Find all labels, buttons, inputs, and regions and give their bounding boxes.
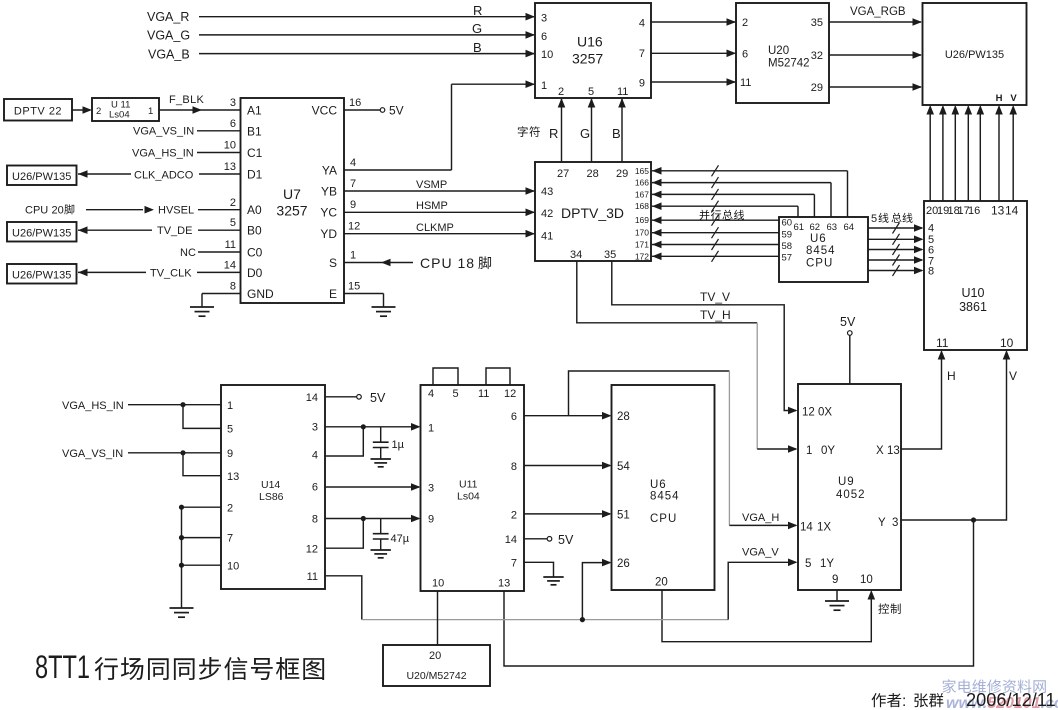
svg-text:5V: 5V [558,533,574,547]
svg-text:GND: GND [247,287,274,301]
svg-text:VSMP: VSMP [416,179,447,191]
svg-text:4: 4 [639,18,645,30]
net TV_H (DPTV 34 to U9 0Y) [577,261,798,453]
svg-text:HVSEL: HVSEL [158,205,194,217]
svg-text:M52742: M52742 [768,58,810,70]
svg-text:TV_V: TV_V [700,290,730,304]
svg-text:9: 9 [350,199,356,211]
wire U14 pin6 to U11 pin3 [325,483,421,491]
svg-text:11: 11 [617,86,628,98]
wire U10 pin 14 to U26 V [1009,105,1017,201]
svg-text:11: 11 [478,388,489,400]
wire U14 pins 2/7/10 to ground [182,507,222,608]
wire 5-wire bus to U10 pin 7 [868,255,924,266]
svg-text:28: 28 [617,411,630,423]
svg-text:1: 1 [428,423,434,435]
svg-text:LS86: LS86 [259,491,284,503]
svg-text:TV_H: TV_H [700,308,731,322]
wire branch to U14 pin12 [325,519,363,549]
svg-text:6: 6 [511,411,517,423]
wire to U14 pin5 [183,405,221,429]
svg-text:3257: 3257 [572,51,603,67]
svg-text:3: 3 [312,422,318,434]
net VGA_VS_IN to U14 pin9 [62,448,221,460]
svg-text:CLKMP: CLKMP [416,222,454,234]
svg-text:H: H [996,93,1003,104]
IC U14 LS86 [221,385,325,589]
svg-text:47µ: 47µ [391,533,410,545]
wire parallel bus bit to DPTV_3D pin 171 [652,239,779,250]
svg-text:YD: YD [320,227,337,241]
svg-text:16: 16 [968,205,980,217]
net CLK_ADCO [78,170,240,182]
wire branch to U14 pin4 [325,427,363,456]
svg-text:YC: YC [320,206,337,220]
svg-text:14: 14 [800,522,813,534]
U11 left pin numbers [428,423,434,526]
net VGA_H (U11 pin6 to U6 pin28 and U9 1X) [524,371,798,529]
wire parallel bus bit to DPTV_3D pin 170 [652,227,779,238]
svg-text:20: 20 [52,205,64,217]
svg-text:11: 11 [225,239,236,251]
svg-text:VCC: VCC [312,104,338,118]
svg-text:13: 13 [498,578,510,590]
svg-text:165: 165 [635,166,649,176]
svg-text:1: 1 [350,250,356,262]
svg-text:VGA_H: VGA_H [742,512,779,524]
svg-text:13: 13 [227,471,239,483]
svg-text:S: S [329,256,337,270]
svg-text:6: 6 [230,118,236,130]
svg-text:R: R [549,126,558,141]
label 字符 (character) [518,126,540,137]
svg-text:B: B [473,40,482,55]
watermark site name [942,679,1045,693]
svg-text:2: 2 [96,106,101,117]
svg-text:168: 168 [635,201,649,211]
svg-text:1: 1 [541,80,547,92]
U14 left pin numbers [227,400,239,573]
svg-text:4052: 4052 [836,489,866,501]
wire parallel bus bit to DPTV_3D pin 168 [652,201,798,217]
svg-text:27: 27 [557,168,569,180]
svg-text:170: 170 [635,228,649,238]
box U26/PW135 (CLK_ADCO) [7,166,77,186]
net VGA_HS_IN to U14 pin1 [62,400,221,412]
wire DPTV22 to U11 inverter [72,106,92,114]
U7 right pin numbers [348,97,361,293]
box U26/PW135 (TV_CLK) [7,264,77,284]
wire U16 pin9 to U20 pin11 [651,78,736,86]
junction dot on Y3 net [971,517,976,522]
svg-text:12: 12 [348,221,360,233]
wire U10 pin 19 to U26 [939,105,947,201]
wire VGA_V branch to U6 pin26 [582,559,611,620]
svg-text:13: 13 [887,445,900,457]
svg-text:VGA_HS_IN: VGA_HS_IN [62,400,124,412]
svg-text:Ls04: Ls04 [109,110,130,121]
svg-text:5V: 5V [840,315,856,329]
svg-text:63: 63 [827,222,838,233]
svg-text:16: 16 [349,97,361,109]
svg-text:NC: NC [180,247,196,259]
wire 5-wire bus to U10 pin 8 [868,265,924,276]
svg-text:VGA_B: VGA_B [148,48,190,62]
svg-text:14: 14 [505,534,517,546]
svg-text:U10: U10 [962,286,985,300]
svg-text:E: E [329,287,337,301]
svg-text:3: 3 [230,97,236,109]
wire U10 pin 13 to U26 H [995,105,1003,201]
svg-text:5: 5 [230,217,236,229]
wire parallel bus bit to DPTV_3D pin 169 [652,215,779,226]
ground (U9 pin 9) [825,601,849,610]
svg-text:51: 51 [617,510,630,522]
label 并行总线 (parallel bus) [700,210,745,220]
svg-text:VGA_VS_IN: VGA_VS_IN [133,126,194,138]
svg-text:U16: U16 [577,34,603,50]
svg-text:28: 28 [587,168,599,180]
junction dot U14 pin2 [179,505,184,510]
ground (U11 pin 7) [543,577,563,585]
net Y3 junction to U10 pin10 (V) [901,350,1017,520]
U9 left pin labels [800,407,835,571]
box DPTV 22 connector [4,99,72,121]
wire to U14 pin13 [183,453,221,476]
svg-text:26: 26 [617,558,630,570]
svg-text:10: 10 [227,561,239,573]
svg-text:U9: U9 [838,476,855,488]
net TV_V (DPTV 35 to U9 0X) [612,261,798,414]
svg-text:R: R [473,3,482,18]
IC U7 3257 [241,98,345,303]
svg-text:U26/PW135: U26/PW135 [12,270,71,282]
junction dot U14 pin7 [179,535,184,540]
svg-text:35: 35 [811,17,823,29]
IC U9 4052 [798,384,901,590]
svg-text:2: 2 [558,86,564,98]
svg-text:62: 62 [810,222,821,233]
svg-text:4: 4 [428,388,434,400]
svg-text:G: G [580,126,590,141]
svg-text:35: 35 [604,249,616,261]
svg-text:DPTV_3D: DPTV_3D [561,205,624,221]
ground (U7 pin 15) [372,307,396,316]
net VGA_V (U14 pin11 to U9 1Y and U6 pin26) [325,547,798,620]
svg-text:U20/M52742: U20/M52742 [406,670,466,682]
IC U6 8454 CPU (lower) [612,385,715,590]
svg-text:H: H [947,369,956,383]
wire U11 pin8 to U6 pin54 [524,462,612,470]
svg-text:32: 32 [811,50,823,62]
junction dot U14 pin3 net [361,424,366,429]
svg-text:29: 29 [811,82,823,94]
U10 left pin numbers [928,223,934,278]
wire parallel bus bit to DPTV_3D pin 166 [652,177,831,217]
ground (U7 pin 8) [190,307,214,316]
svg-text:8454: 8454 [806,245,836,257]
svg-text:C0: C0 [247,246,263,260]
wire 5-wire bus to U10 pin 6 [868,244,924,255]
svg-text:9: 9 [428,514,434,526]
svg-text:U7: U7 [283,186,301,202]
svg-text::: : [902,693,906,710]
svg-text:7: 7 [639,48,645,60]
svg-text:5V: 5V [389,104,404,118]
svg-text:Y: Y [878,517,886,529]
net VGA_HS_IN (U7 C1) [132,148,240,160]
wire U16 pin4 to U20 pin2 [651,18,736,26]
wire U20 pin29 to U26 [829,83,922,91]
svg-text:41: 41 [541,231,553,243]
net NC [180,247,240,259]
svg-text:2: 2 [227,503,233,515]
svg-text:B0: B0 [247,224,262,238]
wire U10 pin 18 to U26 [952,105,960,201]
wire parallel bus bit to DPTV_3D pin 165 [652,165,848,217]
svg-text:11: 11 [307,571,318,583]
svg-text:15: 15 [348,281,360,293]
junction dot VGA_V branch [580,617,585,622]
title 8TT1 sync signal diagram [35,649,324,686]
svg-text:A0: A0 [247,203,262,217]
svg-text:CLK_ADCO: CLK_ADCO [134,170,194,182]
svg-text:34: 34 [570,249,582,261]
svg-text:10: 10 [224,140,236,152]
svg-text:4: 4 [350,157,356,169]
U7 left pin names [247,104,274,302]
wire U11 pin7 to ground [524,562,554,577]
svg-text:29: 29 [616,168,628,180]
svg-text:3: 3 [892,517,898,529]
U9 bottom pin numbers [832,574,873,586]
svg-text:6: 6 [742,49,748,61]
svg-text:TV_DE: TV_DE [157,225,192,237]
svg-text:3257: 3257 [276,203,307,219]
svg-text:8: 8 [230,281,236,293]
svg-text:8: 8 [511,461,517,473]
svg-text:14: 14 [1005,204,1019,218]
svg-text:42: 42 [541,208,553,220]
svg-text:171: 171 [635,240,649,250]
IC U11 Ls04 (lower) [421,385,525,591]
svg-text:12: 12 [504,388,516,400]
box U20/M52742 [383,645,490,686]
wire U7 E pin 15 to ground [344,294,384,308]
DPTV_3D bottom pin numbers [570,249,616,261]
DPTV_3D left pin numbers [541,186,553,243]
svg-text:10: 10 [432,578,444,590]
svg-text:6: 6 [541,31,547,43]
U11 jumper pins 4-5 [433,368,458,385]
svg-text:YA: YA [322,164,337,178]
svg-text:172: 172 [635,251,649,261]
svg-text:12: 12 [306,544,318,556]
junction dot VGA_VS_IN [180,450,185,455]
svg-text:U26/PW135: U26/PW135 [12,228,71,240]
svg-text:5: 5 [227,424,233,436]
svg-text:U6: U6 [810,233,827,245]
svg-text:5: 5 [588,86,594,98]
svg-text:2006/12/11: 2006/12/11 [966,690,1056,710]
svg-text:5: 5 [871,213,877,225]
wire U20 pin32 to U26 [829,51,922,59]
wire parallel bus bit to DPTV_3D pin 167 [652,189,814,217]
svg-text:1X: 1X [817,522,831,534]
U7 right pin names [312,104,338,302]
svg-text:DPTV 22: DPTV 22 [14,106,62,118]
net TV_DE [78,225,240,237]
svg-text:4: 4 [312,450,318,462]
wire U16 pin7 to U20 pin6 [651,50,736,58]
svg-text:3: 3 [541,13,547,25]
svg-text:G: G [472,21,482,36]
svg-text:8TT1: 8TT1 [35,649,90,686]
U11 right pin numbers [505,411,517,570]
net VGA_VS_IN (U7 B1) [133,126,240,138]
svg-text:Ls04: Ls04 [457,491,480,503]
U16 pin numbers [541,13,645,99]
svg-text:61: 61 [794,222,805,233]
svg-text:14: 14 [224,260,236,272]
watermark url [946,695,1058,710]
capacitor C 1u [373,427,405,459]
wire U7 GND pin 8 to ground [202,294,241,308]
svg-text:C1: C1 [247,146,263,160]
svg-text:CPU: CPU [806,258,833,270]
svg-text:V: V [1009,369,1017,383]
svg-text:60: 60 [782,218,793,229]
label 5线总线 (5-wire bus) [871,213,913,225]
svg-text:X: X [876,445,884,457]
svg-text:5V: 5V [370,391,386,405]
DPTV_3D top pin numbers [557,168,628,180]
net VGA_R [147,3,535,24]
svg-text:8: 8 [312,514,318,526]
svg-text:8: 8 [928,266,934,278]
svg-text:0Y: 0Y [821,445,835,457]
wire U7 YA to U16 pin 1 [344,80,535,170]
svg-text:10: 10 [541,49,553,61]
wire U14 pin14 to 5V [325,391,386,405]
svg-text:2: 2 [742,17,748,29]
wire U11 pin2 to U6 pin51 [524,510,612,518]
svg-text:7: 7 [227,533,233,545]
U11 top pin numbers [428,388,516,400]
U11 jumper pins 11-12 [486,368,510,385]
net VGA_G [147,21,535,43]
svg-text:TV_CLK: TV_CLK [150,268,192,280]
junction dot VGA_HS_IN [180,402,185,407]
svg-text:0X: 0X [818,407,832,419]
junction dot U14 pin8 net [361,516,366,521]
svg-text:U6: U6 [650,479,667,491]
U10 top pin numbers [926,204,1019,218]
net control (U6 pin20 to U9 pin10) [662,590,875,642]
IC U20 M52742 [736,3,829,103]
svg-text:9: 9 [832,574,838,586]
svg-text:YB: YB [321,185,337,199]
wire U9 X13 to U10 pin11 (H) [901,350,956,449]
svg-text:3: 3 [428,483,434,495]
svg-text:1: 1 [806,445,812,457]
inverter U11 Ls04 (gate) [92,98,159,121]
label 控制 (control) [878,603,900,614]
U6 lower pin numbers [617,411,668,589]
svg-text:5: 5 [453,388,459,400]
wire R (DPTV 27 to U16 2) [549,98,565,162]
IC U10 3861 [924,201,1027,350]
U6 upper pin numbers [782,218,855,264]
svg-text:U26/PW135: U26/PW135 [945,49,1004,61]
U11 bottom pin numbers [432,578,510,590]
IC U16 3257 [535,3,651,98]
svg-text:F_BLK: F_BLK [169,94,204,106]
svg-text:9: 9 [227,448,233,460]
wire U10 pin 20 to U26 [926,105,934,201]
svg-text:43: 43 [541,186,553,198]
wire U9 pin9 to ground [836,590,838,601]
ground (47u cap) [371,550,391,558]
svg-text:VGA_V: VGA_V [742,547,779,559]
IC U26/PW135 [923,3,1027,105]
svg-text:167: 167 [635,189,649,199]
net HSMP (U7 YC to DPTV_3D 42) [344,200,535,216]
U9 right pin labels [876,445,900,529]
wire U14 pin8 to U11 pin9 [325,515,421,523]
svg-text:VGA_R: VGA_R [147,10,189,24]
svg-text:U14: U14 [261,479,280,491]
net TV_CLK [78,268,240,280]
svg-text:54: 54 [617,461,630,473]
wire U14 pin3 to U11 pin1 [325,423,421,431]
svg-text:U11: U11 [459,479,478,491]
wire U10 pin 17 to U26 [965,105,973,201]
svg-text:11: 11 [740,77,751,89]
net F_BLK [159,94,240,114]
svg-text:2: 2 [511,510,517,522]
svg-text:6: 6 [312,482,318,494]
wire U10 pin 16 to U26 [977,105,985,201]
wire U11 pin14 to 5V [524,533,574,547]
wire U7 VCC to 5V [344,104,404,118]
svg-text:166: 166 [635,178,649,188]
svg-text:A1: A1 [247,104,262,118]
box U26/PW135 (TV_DE) [7,222,77,242]
svg-text:58: 58 [782,241,793,252]
IC U6 8454 CPU (upper) [779,217,868,282]
svg-text:5: 5 [805,558,811,570]
svg-text:9: 9 [639,78,645,90]
net VSMP (U7 YB to DPTV_3D 43) [344,179,535,195]
svg-text:B: B [612,126,621,141]
svg-text:CPU: CPU [650,513,677,525]
svg-text:2: 2 [230,197,236,209]
U7 left pin numbers [224,97,236,293]
DPTV_3D right pin numbers [635,166,649,261]
svg-text:57: 57 [782,253,793,264]
svg-text:3861: 3861 [959,300,987,314]
svg-text:CPU 18: CPU 18 [420,255,475,271]
wire B (DPTV 29 to U16 11) [612,98,626,162]
power 5V (U9 pin16) [840,315,857,400]
net HVSEL from CPU pin 20 [25,204,240,216]
svg-text:HSMP: HSMP [416,200,448,212]
capacitor C 47u [373,519,410,551]
svg-text:64: 64 [844,222,855,233]
svg-text:13: 13 [224,161,236,173]
svg-text:7: 7 [511,558,517,570]
